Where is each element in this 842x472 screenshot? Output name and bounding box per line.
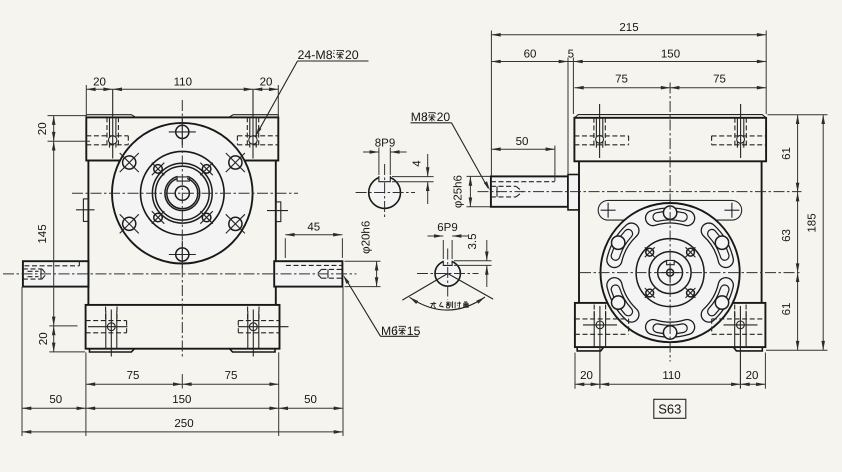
side dial horizontal centerline: [580, 272, 802, 274]
svg-text:45: 45: [307, 222, 320, 234]
front dim 145: [37, 224, 56, 325]
svg-text:8P9: 8P9: [375, 138, 395, 150]
front flange screw hole at 225 deg: [152, 211, 165, 224]
side dim 185: [807, 115, 826, 351]
svg-text:M8: M8: [411, 110, 428, 124]
side dial slot at 90 deg: [653, 206, 687, 219]
front flange foot right: [230, 349, 275, 352]
front spigot rings: [152, 163, 212, 223]
front left input shaft stub: [23, 261, 89, 286]
side dim 75-75: [574, 74, 766, 90]
side bottom flange: [575, 303, 766, 347]
front view top plate: [86, 115, 278, 161]
side bottom dim extension lines: [575, 353, 765, 389]
side dial screw hole at 225 deg: [645, 288, 655, 298]
svg-text:50: 50: [304, 394, 317, 406]
front bolt-circle hole at 90 deg: [169, 118, 196, 145]
side shaft M8 tapped hole: [491, 186, 523, 197]
front dim 45 keyway: [285, 222, 342, 259]
svg-text:75: 75: [615, 74, 628, 86]
front bottom dim extension lines: [22, 287, 343, 436]
front view body: [86, 161, 278, 305]
dim 6P9: [428, 222, 469, 259]
side flange foot right: [733, 347, 762, 351]
front top dim extension lines: [86, 85, 278, 114]
front hub circle: [141, 151, 225, 235]
front right shaft M6 tapped hole: [317, 269, 342, 278]
front bolt-circle hole at 210 deg: [120, 214, 139, 233]
svg-text:61: 61: [781, 147, 793, 160]
front dim 20 left bottom: [38, 326, 56, 352]
svg-text:20: 20: [580, 370, 593, 382]
front input shaft centerline: [3, 273, 357, 275]
front right input shaft stub: [274, 261, 342, 286]
svg-text:5: 5: [568, 49, 574, 61]
side output dial circle: [601, 203, 740, 342]
svg-text:20: 20: [260, 77, 273, 89]
side dial screw hole at 135 deg: [645, 247, 655, 257]
detail phi25 keyway slot 8P9: [379, 174, 390, 182]
front dim 20 left top: [37, 116, 56, 353]
front flange foot left: [90, 349, 135, 352]
front flange screw hole at 315 deg: [200, 211, 213, 224]
side dial slot at 210 deg: [612, 285, 632, 314]
svg-text:M6: M6: [381, 324, 398, 338]
svg-text:6P9: 6P9: [437, 222, 457, 234]
side input shaft phi25: [491, 176, 568, 206]
front dim 50-150-50: [22, 394, 343, 410]
side dial slot at 270 deg: [653, 326, 687, 339]
svg-text:20: 20: [746, 370, 759, 382]
detail phi25 shaft section circle: [369, 177, 401, 209]
side dial slot at 150 deg: [612, 231, 632, 260]
svg-text:75: 75: [127, 370, 140, 382]
front base bolt hole right: [238, 307, 289, 357]
side dial flange circle: [636, 239, 704, 307]
svg-text:φ20h6: φ20h6: [361, 221, 373, 254]
svg-text:75: 75: [713, 74, 726, 86]
front bolt-circle hole at 150 deg: [120, 153, 139, 172]
svg-text:185: 185: [807, 213, 819, 232]
dim 4 keyway depth: [392, 154, 434, 204]
svg-text:S63: S63: [658, 402, 681, 417]
front right side tab: [267, 202, 288, 222]
cam indexing angle legs: [402, 274, 493, 301]
side dim 50 shaft: [491, 136, 555, 151]
side dial vertical centerline: [669, 83, 671, 362]
svg-text:60: 60: [524, 49, 537, 61]
side dial slot at 330 deg: [709, 285, 729, 314]
side top plate bolt hole left: [574, 104, 628, 158]
detail phi20 shaft section circle: [435, 261, 460, 286]
cam indexing angle label: [430, 302, 436, 304]
svg-text:20: 20: [437, 110, 451, 124]
svg-text:110: 110: [174, 77, 192, 89]
front top plate bolt hole left (M8): [86, 90, 128, 159]
svg-text:63: 63: [781, 229, 793, 242]
svg-text:24-M8: 24-M8: [298, 48, 333, 62]
front horizontal centerline output axis: [72, 192, 298, 194]
front top plate bolt hole right (M8): [237, 90, 278, 159]
side dim 60-5-150: [491, 49, 766, 64]
svg-text:20: 20: [37, 122, 49, 135]
side input shaft centerline: [478, 191, 802, 193]
front view bottom flange: [86, 305, 280, 349]
svg-text:250: 250: [174, 418, 193, 430]
model label S63: [654, 399, 686, 418]
side top plate bolt hole right: [712, 104, 767, 158]
svg-text:145: 145: [37, 224, 49, 243]
svg-text:50: 50: [516, 136, 529, 148]
cam indexing angle arc: [410, 297, 486, 310]
side dial screw hole at 45 deg: [686, 247, 696, 257]
svg-text:4: 4: [412, 160, 424, 167]
front left shaft M6 tapped hole: [23, 269, 46, 279]
side base bolt hole right: [712, 305, 766, 389]
front center hole: [175, 186, 189, 200]
detail phi20 centerlines: [417, 249, 479, 300]
front vertical centerline: [181, 100, 183, 358]
label M6 depth 15 with leader: [343, 275, 420, 338]
side flange foot left: [577, 347, 604, 351]
front bolt-circle hole at 30 deg: [226, 153, 245, 172]
svg-text:150: 150: [172, 394, 191, 406]
label 24-M8 depth 20 with leader: [256, 48, 369, 136]
front left side tab: [76, 199, 95, 222]
front output flange circle phi110: [112, 123, 253, 264]
side dim extension lines right: [766, 115, 828, 351]
side dim extension lines top: [491, 31, 766, 182]
side shaft boss: [568, 175, 579, 210]
side dial bore phi20: [658, 260, 683, 285]
detail phi25 centerlines: [356, 164, 415, 220]
dim 8P9: [363, 138, 407, 176]
front dim 250: [22, 418, 343, 434]
svg-text:75: 75: [225, 370, 238, 382]
side dim 215: [491, 22, 766, 37]
side dial bore keyway 6P9: [667, 259, 675, 265]
svg-text:50: 50: [49, 394, 62, 406]
side dial slot at 30 deg: [709, 231, 729, 260]
side dial screw hole at 315 deg: [686, 288, 696, 298]
front bore keyway 8P9: [177, 175, 189, 182]
svg-text:20: 20: [93, 77, 106, 89]
svg-text:20: 20: [345, 48, 359, 62]
label M8 depth 20 with leader: [411, 110, 490, 190]
front bolt-circle hole at 330 deg: [226, 214, 245, 233]
detail phi20 keyway slot 6P9: [443, 259, 452, 266]
svg-text:215: 215: [619, 22, 638, 34]
side dial center hole: [661, 264, 679, 282]
dim 3.5 keyway depth: [454, 234, 492, 288]
front dim 20-110-20: [86, 77, 278, 91]
side dial inner circle: [649, 252, 691, 294]
front flange screw hole at 135 deg: [152, 163, 165, 176]
front bore circles: [165, 176, 200, 211]
side dim 61-63-61: [781, 115, 799, 351]
svg-text:110: 110: [662, 370, 680, 382]
side view top plate: [574, 115, 766, 162]
svg-text:150: 150: [661, 49, 680, 61]
svg-text:φ25h6: φ25h6: [453, 175, 465, 208]
svg-text:61: 61: [781, 303, 793, 316]
front flange screw hole at 45 deg: [200, 163, 213, 176]
front left dim extension lines: [48, 116, 91, 352]
side dim 20-110-20: [575, 370, 765, 386]
side dim phi25h6: [453, 175, 491, 208]
side view body: [579, 161, 762, 303]
svg-text:20: 20: [38, 332, 50, 345]
side base bolt hole left: [575, 305, 629, 389]
front dim phi20h6: [345, 221, 381, 287]
svg-text:3.5: 3.5: [467, 234, 479, 250]
side housing cross bar: [598, 200, 742, 220]
svg-text:15: 15: [407, 324, 421, 338]
front bolt-circle hole at 270 deg: [169, 241, 196, 268]
front dim 75-75: [86, 370, 279, 386]
front base bolt hole left: [86, 307, 128, 357]
